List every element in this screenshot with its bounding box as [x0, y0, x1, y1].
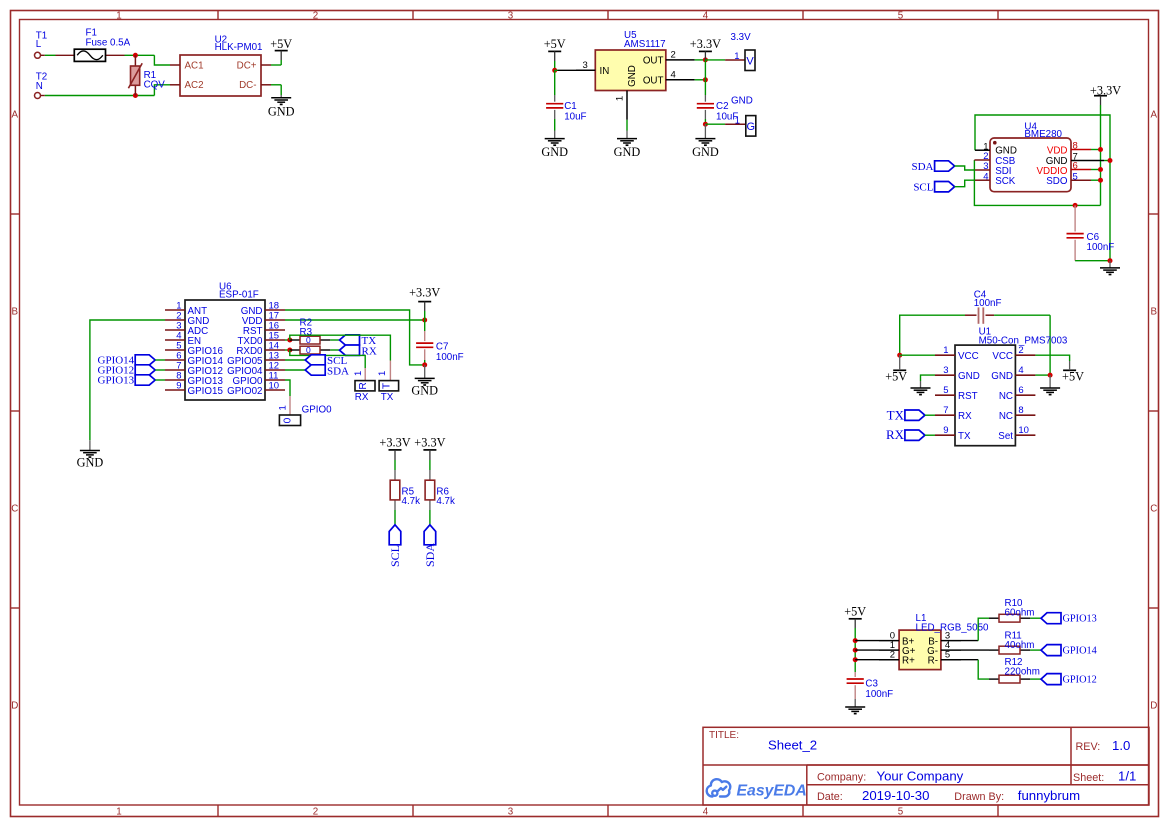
resistor R3 — [290, 327, 331, 345]
junction — [703, 57, 708, 62]
svg-text:AMS1117: AMS1117 — [624, 39, 666, 50]
ground — [541, 131, 568, 160]
wire CSB loop — [974, 160, 1100, 205]
svg-text:1: 1 — [116, 11, 121, 22]
connector V — [705, 32, 755, 71]
svg-text:R-: R- — [928, 656, 938, 667]
svg-text:5: 5 — [943, 385, 948, 396]
svg-text:1/1: 1/1 — [1118, 769, 1136, 784]
wire VDDIO to rail — [1091, 169, 1101, 171]
wire OUT4 to rail — [695, 79, 706, 81]
wire OUT2 to rail — [695, 59, 706, 61]
svg-text:60ohm: 60ohm — [1005, 608, 1035, 619]
wire GND pin2 to ground — [90, 320, 165, 440]
wire T1 to F1 — [45, 54, 56, 56]
wire GND pin18 — [285, 310, 425, 365]
net port RX — [330, 345, 377, 357]
svg-text:100nF: 100nF — [865, 689, 893, 700]
svg-text:D: D — [11, 701, 18, 712]
+5V power — [885, 355, 907, 383]
junction — [422, 318, 427, 323]
svg-text:+5V: +5V — [1062, 370, 1084, 384]
junction — [1108, 158, 1113, 163]
svg-text:GPIO15: GPIO15 — [188, 386, 224, 397]
svg-text:GND: GND — [77, 455, 104, 469]
svg-text:10uF: 10uF — [564, 111, 586, 122]
svg-text:GPIO12: GPIO12 — [1063, 675, 1097, 686]
svg-text:100nF: 100nF — [974, 298, 1002, 309]
svg-text:220ohm: 220ohm — [1005, 667, 1040, 678]
svg-text:A: A — [12, 110, 19, 121]
junction — [1098, 167, 1103, 172]
svg-text:2: 2 — [890, 650, 895, 661]
svg-text:6: 6 — [1073, 161, 1078, 172]
junction — [552, 68, 557, 73]
+3.3V power — [409, 285, 440, 311]
svg-text:OUT: OUT — [643, 56, 664, 67]
svg-text:+3.3V: +3.3V — [690, 37, 721, 51]
junction — [703, 77, 708, 82]
capacitor C7 — [416, 331, 464, 365]
wire rail to C7 — [424, 311, 426, 331]
wire TXD0 — [285, 339, 290, 341]
svg-text:+5V: +5V — [544, 37, 566, 51]
svg-text:GND: GND — [268, 105, 295, 119]
svg-text:C2: C2 — [716, 101, 729, 112]
net port TX — [330, 335, 376, 347]
capacitor C6 — [1067, 205, 1115, 260]
svg-text:40ohm: 40ohm — [1005, 640, 1035, 651]
svg-text:SDO: SDO — [1046, 176, 1068, 187]
wire pin3 GND — [921, 375, 936, 381]
svg-text:D: D — [1150, 701, 1157, 712]
svg-text:4: 4 — [703, 807, 709, 818]
svg-text:+3.3V: +3.3V — [409, 285, 440, 299]
junction — [853, 638, 858, 643]
capacitor C2 — [697, 95, 739, 124]
wire GND loop top — [975, 115, 1110, 261]
svg-text:10: 10 — [1018, 425, 1029, 436]
svg-text:RX: RX — [355, 392, 369, 403]
svg-text:4.7k: 4.7k — [436, 496, 455, 507]
svg-text:Sheet:: Sheet: — [1073, 772, 1104, 784]
svg-text:4.7k: 4.7k — [402, 496, 421, 507]
svg-text:1: 1 — [615, 96, 626, 101]
svg-text:TX: TX — [887, 407, 905, 422]
+5V power — [1062, 361, 1084, 384]
connector R — [353, 368, 375, 403]
svg-text:9: 9 — [176, 380, 181, 391]
svg-text:GND: GND — [614, 145, 641, 159]
svg-text:+3.3V: +3.3V — [414, 435, 445, 449]
svg-text:3: 3 — [508, 807, 514, 818]
EasyEDA logo — [707, 779, 807, 799]
svg-text:NC: NC — [999, 411, 1013, 422]
+3.3V power — [379, 435, 410, 460]
resistor R6 — [425, 470, 455, 510]
wire to IN pin 3 — [555, 69, 576, 71]
net port GPIO12 — [1030, 674, 1097, 686]
junction — [287, 348, 292, 353]
junction — [1073, 203, 1078, 208]
svg-text:100nF: 100nF — [1087, 242, 1115, 253]
connector U1 M50-Con_PMS7003 — [935, 327, 1068, 446]
wire T2 to junction — [45, 95, 155, 97]
svg-text:2019-10-30: 2019-10-30 — [862, 788, 929, 803]
svg-text:EasyEDA: EasyEDA — [737, 782, 807, 799]
ground — [845, 699, 865, 714]
svg-text:NC: NC — [999, 391, 1013, 402]
net port GPIO14 — [1030, 645, 1097, 657]
svg-text:GPIO02: GPIO02 — [227, 386, 262, 397]
capacitor C3 — [847, 672, 894, 700]
svg-text:1: 1 — [943, 345, 948, 356]
svg-text:3.3V: 3.3V — [731, 32, 752, 43]
+5V power — [844, 605, 866, 628]
capacitor C4 — [900, 289, 1050, 355]
svg-text:1.0: 1.0 — [1112, 738, 1130, 753]
svg-text:8: 8 — [1073, 141, 1078, 152]
svg-text:1: 1 — [278, 405, 289, 410]
svg-text:Drawn By:: Drawn By: — [954, 791, 1004, 803]
svg-text:GND: GND — [991, 371, 1013, 382]
net port GPIO13 — [1030, 613, 1097, 625]
ground — [1040, 375, 1060, 395]
svg-text:10: 10 — [269, 380, 280, 391]
wire RXD0 — [285, 349, 290, 351]
svg-text:C1: C1 — [564, 101, 577, 112]
svg-text:4: 4 — [1018, 365, 1023, 376]
svg-text:HLK-PM01: HLK-PM01 — [215, 42, 263, 53]
junction — [1098, 147, 1103, 152]
svg-text:VCC: VCC — [992, 351, 1013, 362]
wire C6 to GND — [1075, 260, 1110, 262]
ground — [614, 131, 641, 160]
+3.3V power — [414, 435, 445, 460]
junction — [1098, 178, 1103, 183]
svg-text:R+: R+ — [902, 656, 915, 667]
svg-text:5: 5 — [898, 11, 904, 22]
wire pin4 GND — [1035, 374, 1050, 376]
svg-text:R2: R2 — [300, 318, 313, 329]
svg-text:GPIO13: GPIO13 — [98, 375, 135, 387]
ground — [77, 440, 104, 469]
wire GND7 to rail — [1104, 160, 1110, 162]
+5V power — [544, 37, 566, 61]
wire +5V rail — [854, 628, 856, 672]
net port SCL — [285, 355, 347, 367]
ground — [692, 124, 719, 159]
svg-text:2: 2 — [313, 807, 318, 818]
LED L1 LED_RGB_5050 — [879, 613, 989, 670]
svg-text:RX: RX — [886, 427, 905, 442]
svg-text:GPIO13: GPIO13 — [1063, 614, 1097, 625]
svg-text:SCL: SCL — [913, 182, 933, 194]
wire pin2 VCC — [1035, 355, 1069, 361]
svg-text:8: 8 — [1018, 405, 1023, 416]
wire SDO to rail — [1091, 179, 1101, 181]
svg-text:CQV: CQV — [144, 79, 166, 90]
svg-text:C: C — [1150, 504, 1157, 515]
svg-text:+5V: +5V — [885, 370, 907, 384]
svg-text:RST: RST — [958, 391, 978, 402]
wire to R6 — [429, 460, 431, 470]
svg-text:SDA: SDA — [327, 365, 349, 377]
svg-text:SCL: SCL — [388, 545, 402, 567]
svg-text:4: 4 — [703, 11, 709, 22]
svg-text:SDA: SDA — [911, 161, 933, 173]
wire pin1 VCC — [900, 354, 935, 356]
svg-text:+3.3V: +3.3V — [1090, 83, 1121, 97]
ground — [1100, 261, 1120, 275]
module U2 HLK-PM01 — [170, 35, 271, 97]
svg-text:GND: GND — [958, 371, 980, 382]
svg-text:5: 5 — [945, 650, 950, 661]
svg-text:R: R — [358, 382, 369, 389]
svg-text:2: 2 — [1018, 345, 1023, 356]
svg-text:B: B — [1151, 307, 1158, 318]
wire F1 to junction — [125, 54, 155, 56]
connector T — [377, 361, 399, 404]
net port SDA — [423, 525, 437, 567]
svg-text:IN: IN — [600, 66, 610, 77]
net port SCL — [913, 180, 975, 193]
svg-text:Company:: Company: — [817, 772, 866, 784]
svg-text:DC-: DC- — [239, 80, 256, 91]
net port GPIO12 — [98, 365, 165, 377]
net port GPIO14 — [98, 355, 165, 367]
resistor R2 — [290, 318, 331, 356]
wire B- to R10 — [961, 618, 989, 640]
svg-text:GPIO0: GPIO0 — [302, 405, 332, 416]
svg-text:AC2: AC2 — [185, 80, 204, 91]
svg-text:7: 7 — [943, 405, 948, 416]
svg-text:+5V: +5V — [844, 605, 866, 619]
svg-text:1: 1 — [377, 371, 388, 376]
junction — [287, 338, 292, 343]
svg-text:2: 2 — [313, 11, 318, 22]
svg-text:3: 3 — [943, 365, 948, 376]
IC U4 BME280 — [974, 121, 1104, 191]
junction — [133, 53, 138, 58]
wire B+ G+ R+ — [855, 641, 879, 660]
svg-text:3: 3 — [508, 11, 514, 22]
svg-text:funnybrum: funnybrum — [1018, 788, 1080, 803]
svg-text:GND: GND — [541, 145, 568, 159]
title block — [703, 727, 1149, 805]
junction — [897, 353, 902, 358]
svg-text:5: 5 — [898, 807, 904, 818]
net port SDA — [911, 161, 975, 173]
svg-text:Set: Set — [998, 431, 1013, 442]
svg-text:SDA: SDA — [423, 543, 437, 567]
svg-text:GPIO14: GPIO14 — [1063, 646, 1097, 657]
capacitor C1 — [546, 70, 586, 130]
wire G- to R11 — [961, 649, 989, 651]
net port GPIO13 — [98, 375, 165, 387]
svg-text:2: 2 — [671, 50, 676, 61]
wire RXD0 to connector R — [290, 350, 365, 368]
svg-text:3: 3 — [583, 60, 588, 71]
junction — [1048, 373, 1053, 378]
svg-text:AC1: AC1 — [185, 60, 204, 71]
+5V power — [270, 37, 292, 60]
junction — [853, 648, 858, 653]
net port TX — [887, 407, 935, 422]
wire TXD0 to connector T — [290, 335, 391, 360]
svg-text:REV:: REV: — [1076, 741, 1101, 753]
svg-text:A: A — [1151, 110, 1158, 121]
svg-text:C: C — [11, 504, 18, 515]
ground — [411, 365, 438, 398]
junction — [853, 657, 858, 662]
wire rail — [704, 60, 706, 95]
terminal T1 — [35, 30, 48, 58]
wire VDD pin17 — [285, 319, 425, 321]
svg-text:C7: C7 — [436, 342, 449, 353]
resistor R11 — [989, 631, 1034, 654]
svg-text:OUT: OUT — [643, 75, 664, 86]
junction — [703, 122, 708, 127]
+3.3V power — [690, 37, 721, 60]
svg-text:C3: C3 — [865, 679, 878, 690]
svg-text:TITLE:: TITLE: — [709, 730, 739, 741]
wire +5V to junction — [554, 61, 556, 70]
svg-text:Your Company: Your Company — [877, 769, 964, 784]
svg-text:4: 4 — [983, 171, 988, 182]
svg-text:N: N — [36, 81, 43, 92]
svg-text:+5V: +5V — [270, 37, 292, 51]
net port SCL — [388, 525, 402, 567]
terminal T2 — [35, 72, 48, 99]
svg-text:TX: TX — [381, 392, 394, 403]
wire VDD to rail — [1091, 149, 1101, 151]
svg-text:Date:: Date: — [817, 791, 843, 803]
svg-text:4: 4 — [671, 70, 676, 81]
ground — [911, 381, 931, 395]
wire to R5 — [394, 460, 396, 470]
svg-text:+3.3V: +3.3V — [379, 435, 410, 449]
wire R6 to port — [429, 510, 431, 525]
svg-text:1: 1 — [734, 51, 739, 62]
svg-text:Sheet_2: Sheet_2 — [768, 738, 817, 753]
wire C4 right to pin4 — [1049, 315, 1051, 375]
svg-text:SCK: SCK — [995, 176, 1016, 187]
regulator U5 AMS1117 — [576, 30, 695, 120]
connector GPIO0 — [278, 396, 333, 426]
svg-text:6: 6 — [1018, 385, 1023, 396]
wire DC- to GND — [271, 85, 281, 95]
wire +3.3V rail — [1100, 105, 1102, 205]
svg-text:V: V — [746, 55, 754, 67]
svg-text:BME280: BME280 — [1024, 129, 1062, 140]
resistor R12 — [989, 657, 1040, 683]
net port RX — [886, 427, 935, 442]
svg-text:GND: GND — [627, 65, 638, 87]
svg-text:Fuse 0.5A: Fuse 0.5A — [86, 38, 131, 49]
resistor R5 — [390, 470, 420, 510]
svg-text:0: 0 — [306, 345, 311, 355]
svg-text:B: B — [12, 307, 19, 318]
svg-text:GND: GND — [411, 384, 438, 398]
svg-text:RX: RX — [958, 411, 972, 422]
wire GPIO0 pin11 — [285, 380, 290, 396]
wire U5 GND pin 1 — [626, 120, 628, 131]
svg-text:5: 5 — [1073, 171, 1078, 182]
svg-text:9: 9 — [943, 425, 948, 436]
resistor R10 — [989, 598, 1034, 622]
svg-text:0: 0 — [283, 417, 294, 423]
wire to AC1 — [154, 55, 170, 65]
junction — [1108, 258, 1113, 263]
ground — [268, 95, 295, 119]
wire DC+ to +5V — [271, 60, 281, 65]
wire R- to R12 — [961, 660, 989, 679]
svg-text:1: 1 — [353, 371, 364, 376]
svg-text:GND: GND — [692, 145, 719, 159]
svg-text:0: 0 — [306, 335, 311, 345]
svg-text:T: T — [382, 383, 393, 389]
svg-text:100nF: 100nF — [436, 352, 464, 363]
svg-text:ESP-01F: ESP-01F — [219, 290, 259, 301]
svg-text:1: 1 — [735, 116, 740, 127]
net port SDA — [285, 365, 349, 378]
wire to AC2 — [154, 85, 170, 96]
varistor R1 — [128, 55, 165, 95]
svg-text:TX: TX — [958, 431, 971, 442]
svg-text:L: L — [36, 39, 42, 50]
fuse F1 — [56, 27, 131, 61]
svg-text:G: G — [747, 121, 756, 133]
svg-text:1: 1 — [116, 807, 121, 818]
+3.3V power — [1090, 83, 1121, 105]
wire R5 to port — [394, 510, 396, 525]
svg-text:DC+: DC+ — [237, 60, 257, 71]
module U6 ESP-01F — [165, 281, 285, 400]
junction — [133, 93, 138, 98]
svg-text:GND: GND — [731, 96, 753, 107]
connector G — [705, 96, 755, 137]
svg-text:VCC: VCC — [958, 351, 979, 362]
junction — [422, 362, 427, 367]
